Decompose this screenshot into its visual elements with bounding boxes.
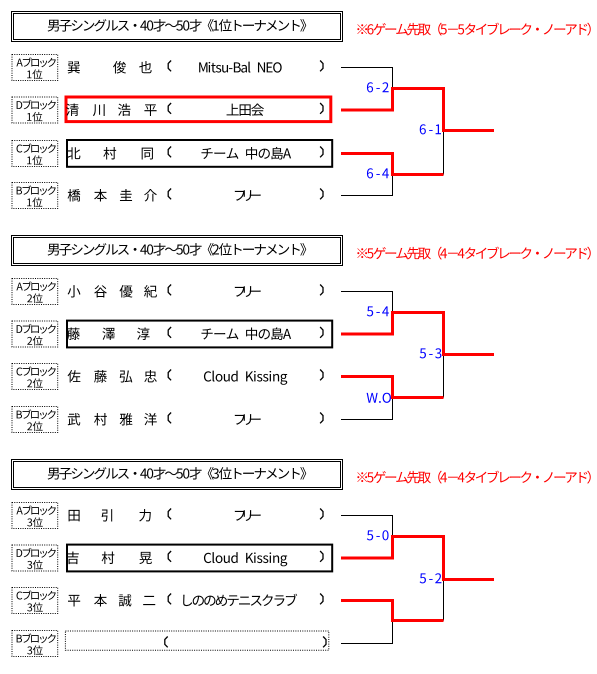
section 3 header box xyxy=(12,460,343,490)
section 1 header box xyxy=(12,12,343,42)
section 2 header box xyxy=(12,236,343,266)
